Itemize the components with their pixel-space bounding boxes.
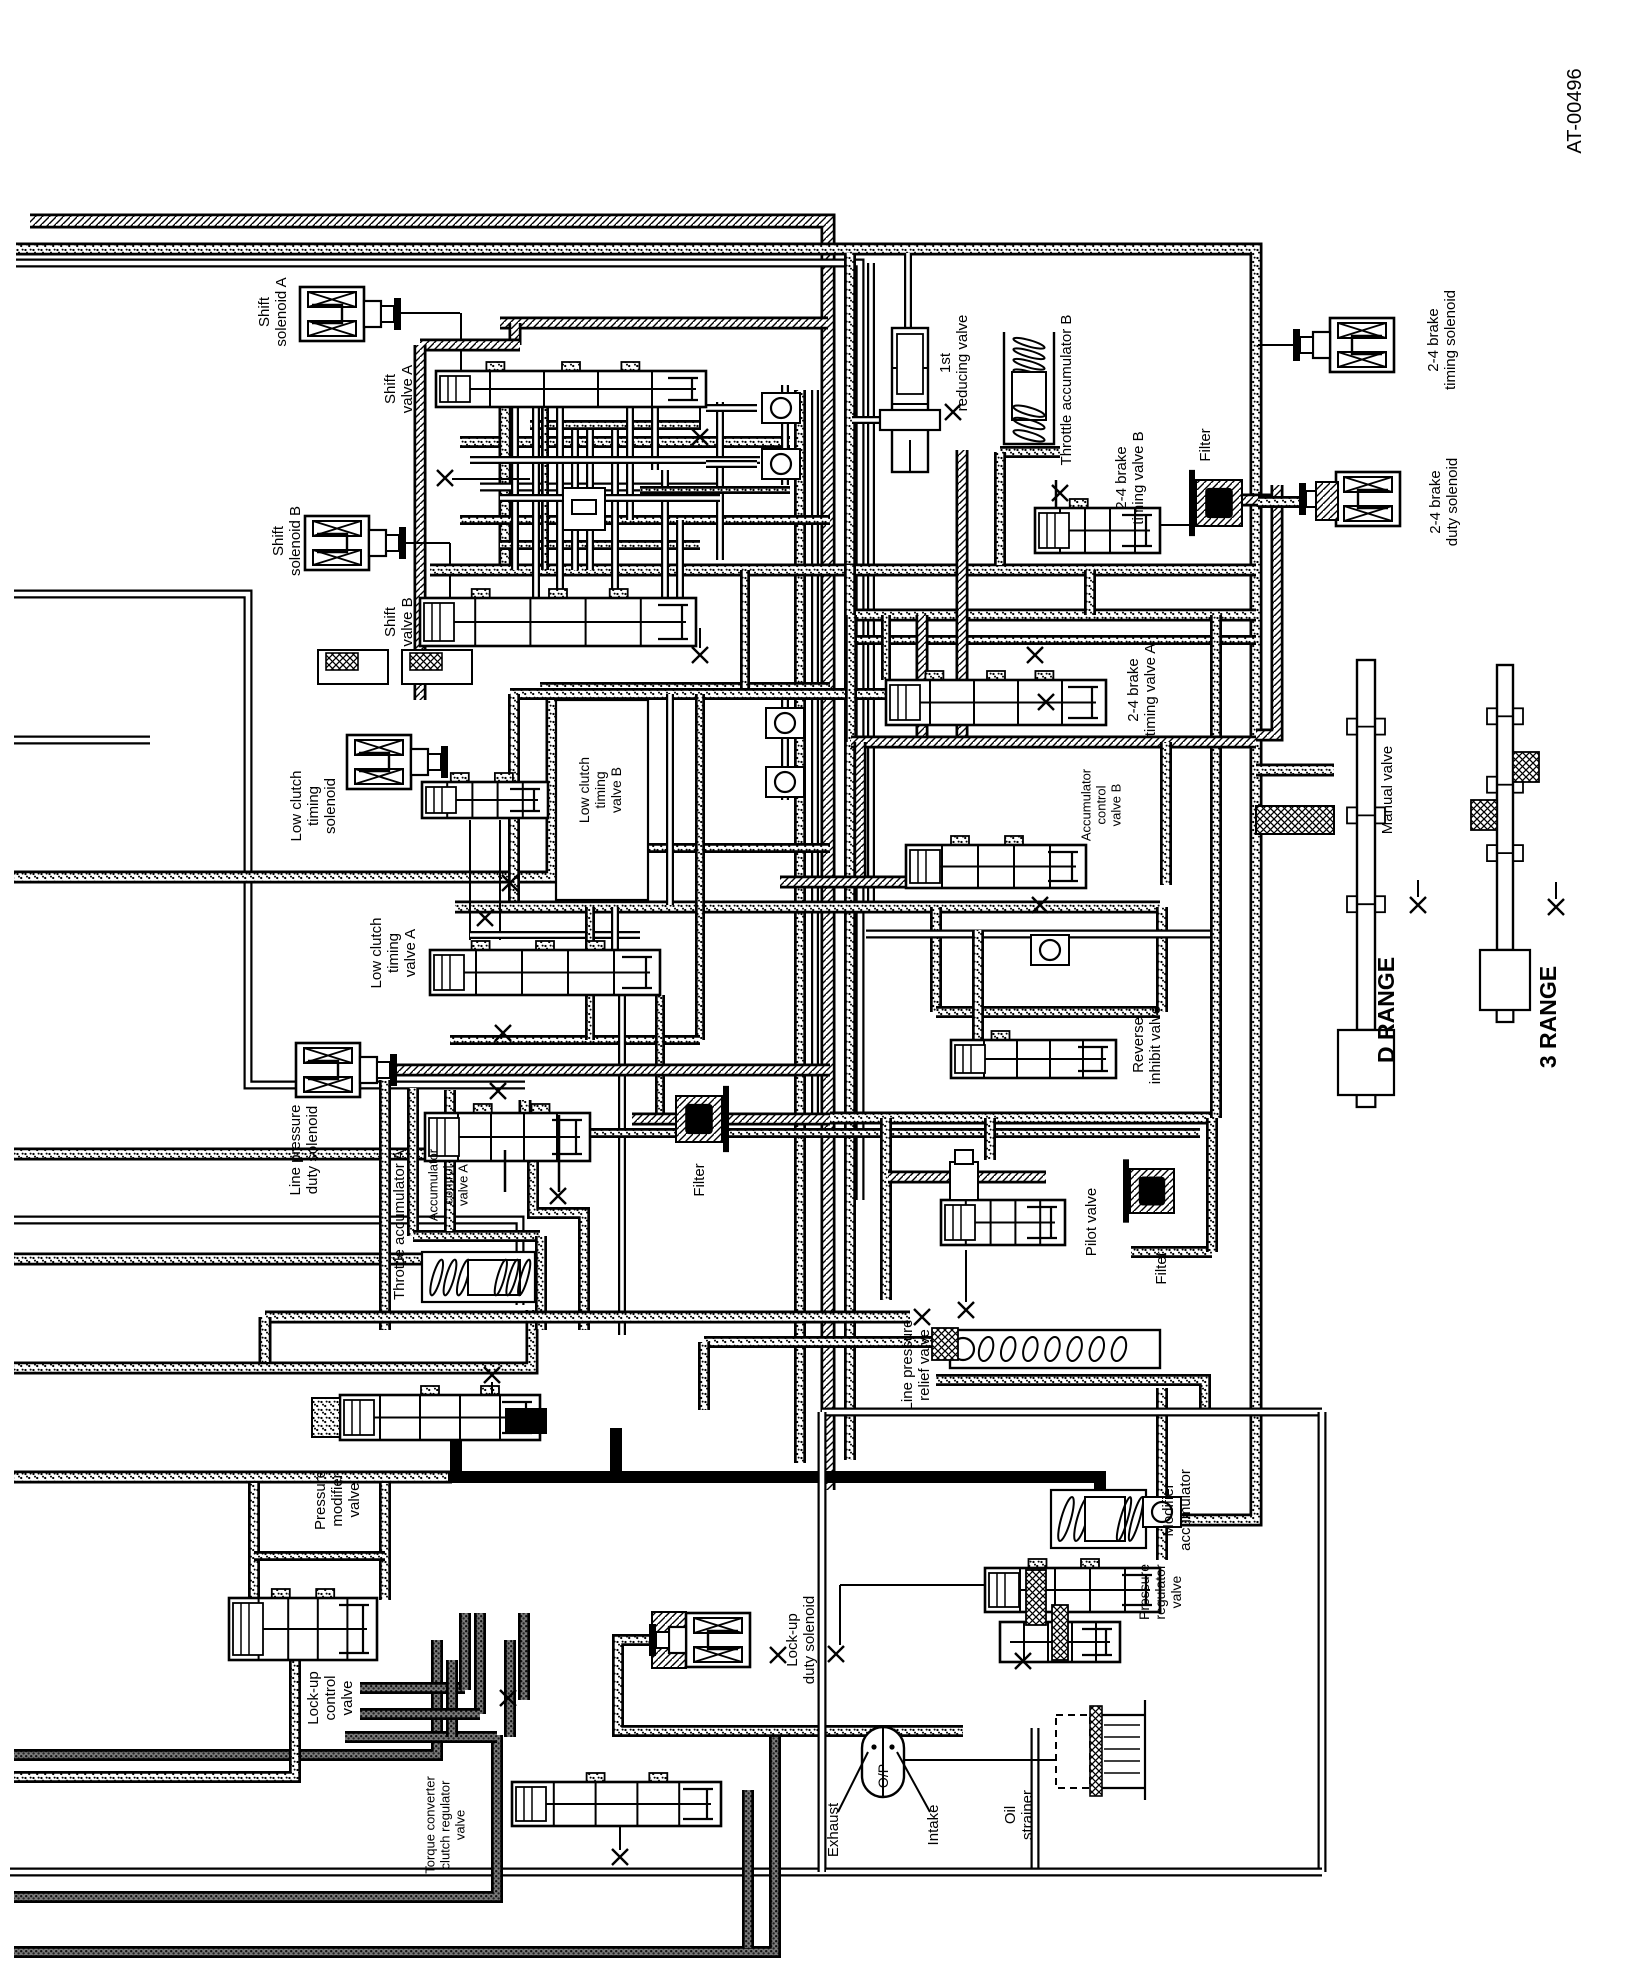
svg-text:Manual valve: Manual valve bbox=[1379, 746, 1396, 834]
svg-text:Reverseinhibit valve: Reverseinhibit valve bbox=[1130, 1006, 1164, 1084]
svg-text:AT-00496: AT-00496 bbox=[1564, 68, 1586, 153]
svg-text:Exhaust: Exhaust bbox=[825, 1802, 842, 1857]
svg-text:Filter: Filter bbox=[1197, 428, 1214, 461]
svg-text:O/P: O/P bbox=[875, 1764, 891, 1788]
svg-text:Throttle accumulator A: Throttle accumulator A bbox=[391, 1150, 408, 1300]
svg-text:Intake: Intake bbox=[925, 1805, 942, 1846]
svg-text:Line pressurerelief valve: Line pressurerelief valve bbox=[899, 1320, 933, 1411]
svg-text:Throttle accumulator B: Throttle accumulator B bbox=[1058, 315, 1075, 466]
svg-text:Filter: Filter bbox=[691, 1163, 708, 1196]
svg-text:D RANGE: D RANGE bbox=[1373, 957, 1399, 1063]
svg-text:Pilot valve: Pilot valve bbox=[1083, 1188, 1100, 1256]
svg-text:3 RANGE: 3 RANGE bbox=[1535, 966, 1561, 1068]
svg-text:2-4 brakeduty solenoid: 2-4 brakeduty solenoid bbox=[1427, 458, 1461, 546]
svg-text:Line pressureduty solenoid: Line pressureduty solenoid bbox=[287, 1105, 321, 1196]
svg-text:Filter: Filter bbox=[1153, 1251, 1170, 1284]
